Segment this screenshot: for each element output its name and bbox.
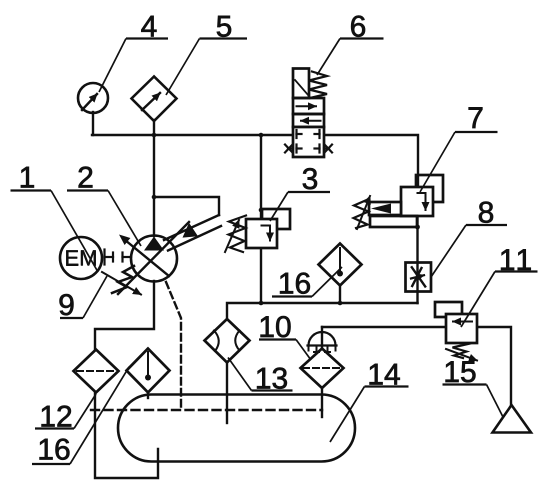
wire: bus valve6 to valve7 <box>324 135 418 187</box>
exhaust triangle 15 <box>493 405 532 433</box>
label 4 <box>99 16 168 92</box>
electric motor 1 <box>60 237 102 279</box>
wire: top pressure bus <box>92 134 293 136</box>
node: diamond16-bus junction <box>338 301 343 306</box>
label 14 <box>330 364 409 442</box>
label 10 <box>259 316 311 360</box>
gauge 4 <box>78 83 108 113</box>
wire: tank dashed line <box>91 409 322 411</box>
label 3 <box>270 168 330 221</box>
label 13 <box>228 358 293 391</box>
label 1 <box>11 167 99 272</box>
node: bus-pump junction <box>152 133 157 138</box>
label 5 <box>166 16 247 95</box>
wire: element10 to valve11 <box>322 326 446 328</box>
throttle 8 <box>406 263 432 292</box>
valve 11 <box>435 302 477 361</box>
variable control 9 <box>102 266 141 295</box>
tank 14 <box>118 395 355 462</box>
flow indicator 5 <box>132 77 177 122</box>
valve 7 <box>354 175 444 229</box>
thermometer 16 (top) <box>319 244 362 286</box>
dryer 13 <box>205 319 250 363</box>
wire: element10 riser <box>321 327 323 349</box>
label 2 <box>67 167 141 246</box>
wire: valve3 upper branch <box>260 135 262 219</box>
wire: valve3 lower branch <box>260 248 262 303</box>
node: valve3 branch junction <box>259 133 264 138</box>
label 11 <box>461 249 538 327</box>
node: compensator junction <box>152 195 157 200</box>
wire: drain line (dashed) <box>166 282 181 410</box>
wire: diamond16 stalk <box>339 285 341 303</box>
wire: filter12 to tank <box>95 392 158 478</box>
wire: valve11 to exhaust triangle <box>477 327 511 405</box>
pump compensator actuator <box>154 197 221 251</box>
label 6 <box>317 16 384 75</box>
wire: diamond16b stalk to tank <box>147 392 149 398</box>
wire: gauge stem <box>92 112 94 135</box>
label 16 (top) <box>272 267 342 297</box>
filter 12 <box>74 350 119 393</box>
pump 2 <box>118 222 189 294</box>
wire: main pressure line diamond5 to pump <box>153 120 155 236</box>
label 9 <box>60 276 107 318</box>
label 8 <box>431 202 507 277</box>
wire: valve7 to element8 <box>416 216 418 303</box>
node: valve3-bus2 junction <box>259 301 264 306</box>
label 7 <box>420 107 498 192</box>
wire: middle bus <box>227 303 418 319</box>
shaft coupling <box>105 250 132 265</box>
wire: element10 diamond to tank <box>321 388 323 417</box>
wire: pump suction with filter <box>95 281 154 350</box>
valve 3 <box>225 208 290 252</box>
label 15 <box>443 361 504 417</box>
valve 6 <box>285 69 332 158</box>
label 12 <box>35 394 96 429</box>
wire: diamond13 to tank <box>226 362 228 423</box>
label 16 (bottom) <box>32 367 129 464</box>
separator 10 <box>301 332 344 388</box>
thermometer 16 (bottom) <box>127 349 170 393</box>
